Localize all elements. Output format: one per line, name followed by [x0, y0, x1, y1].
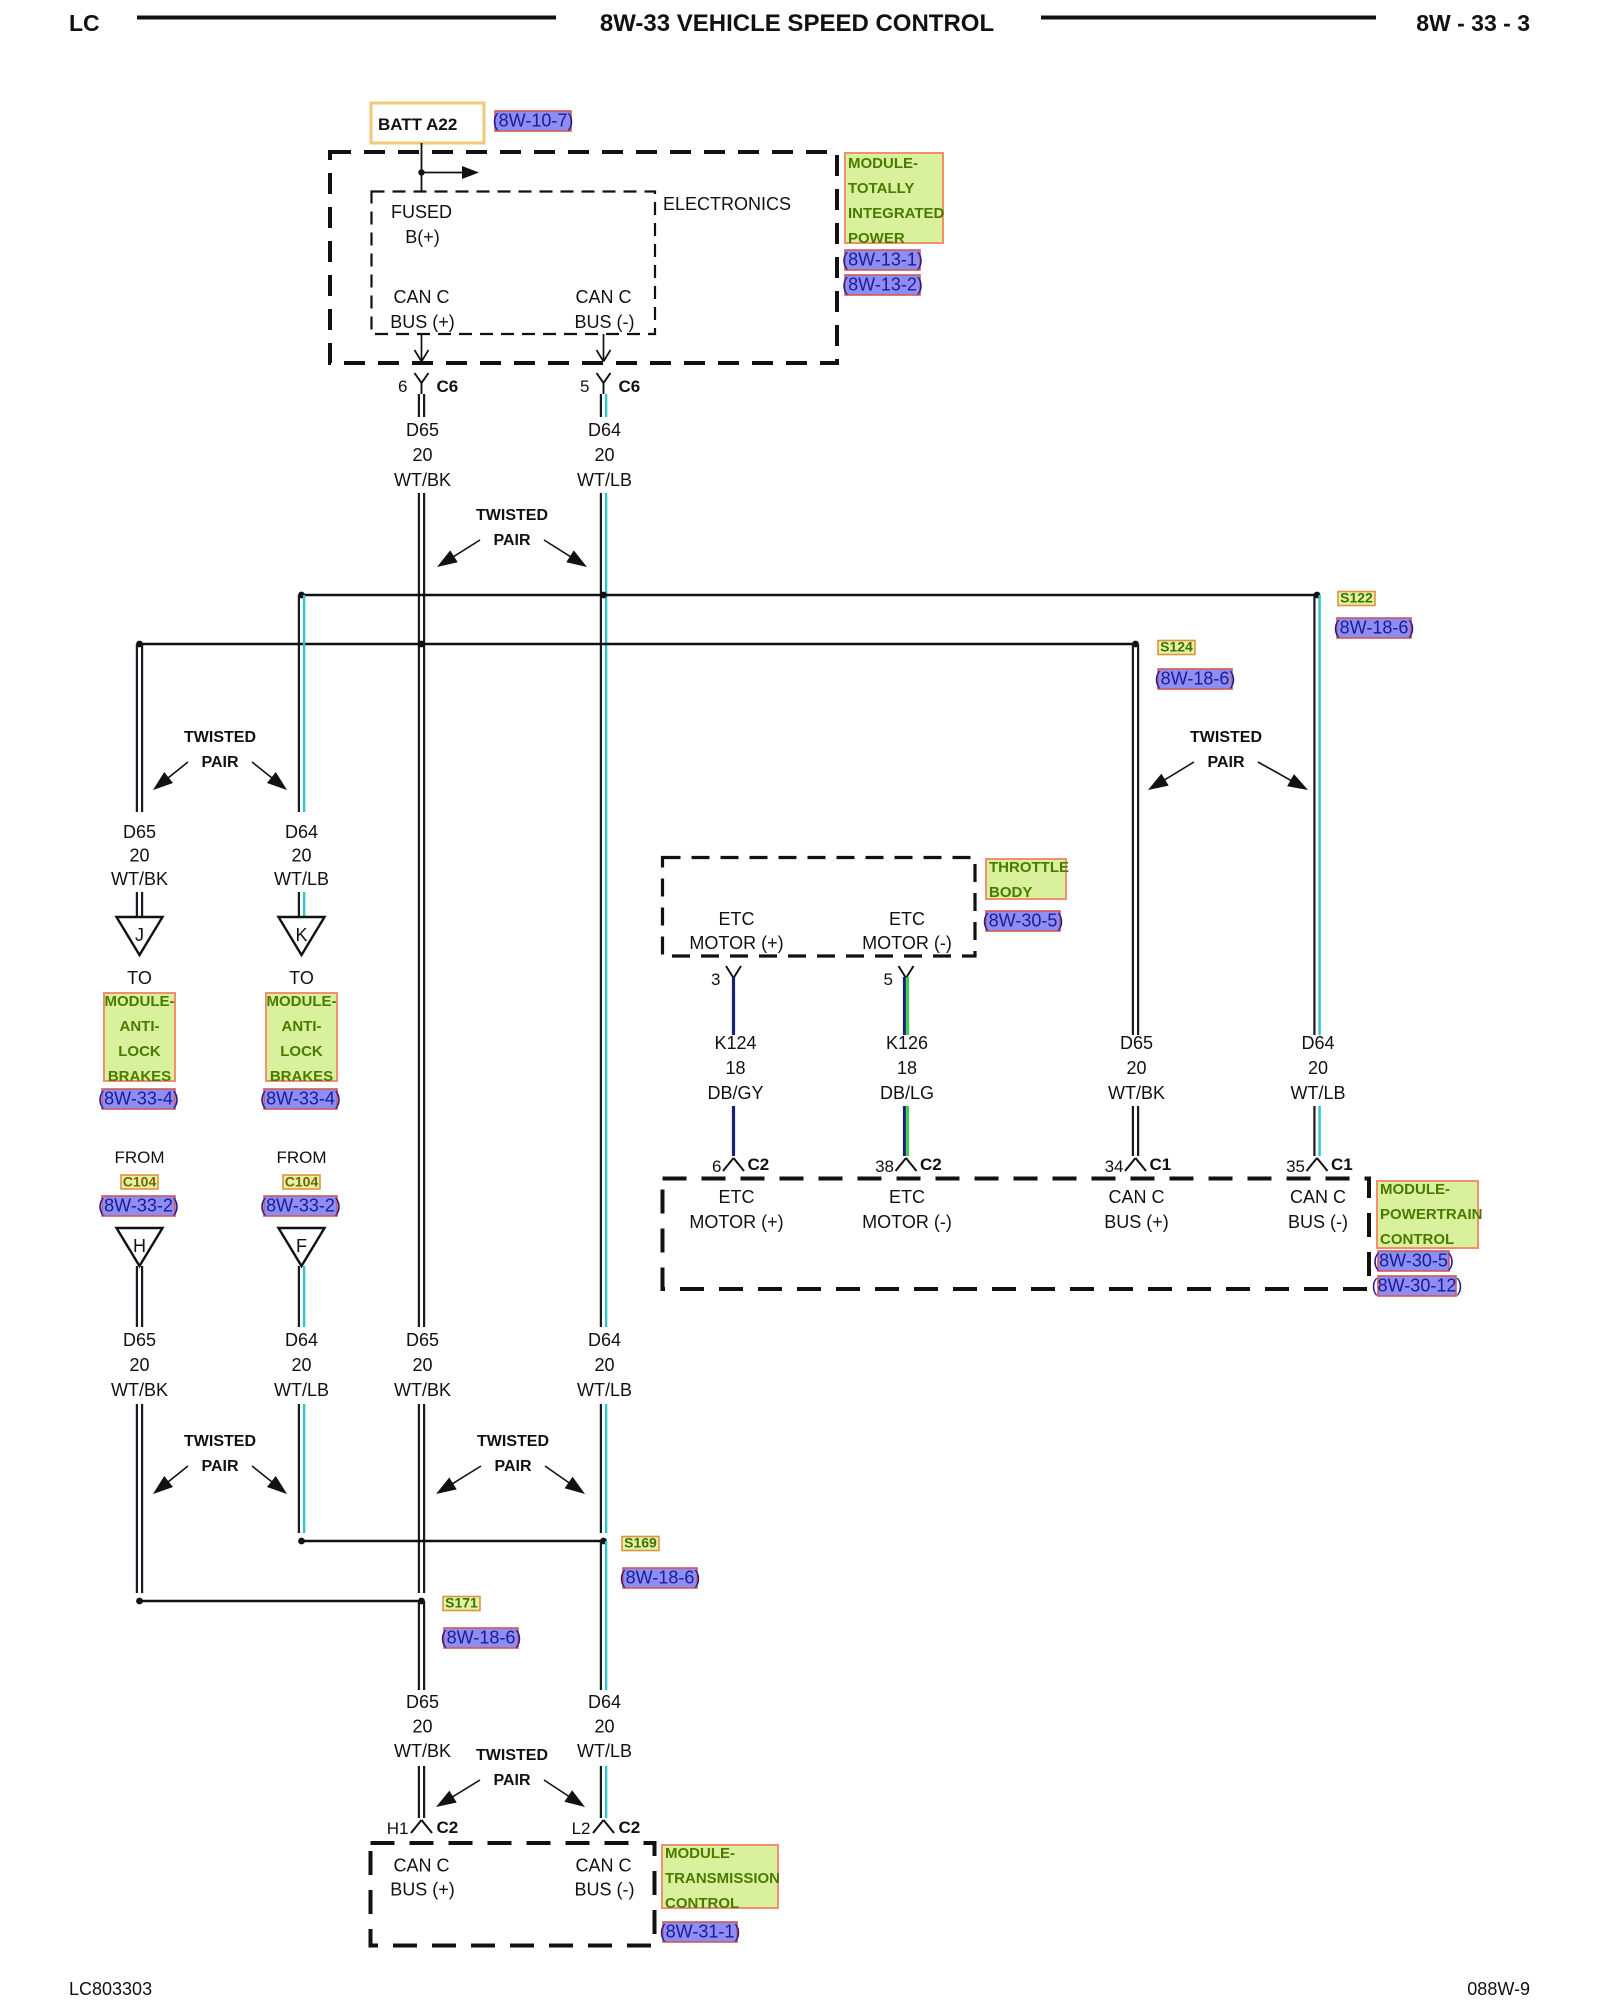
- wire D64 upper segment: [601, 394, 606, 417]
- label D64 20 WT/LB bottom: [577, 1692, 632, 1761]
- svg-text:TRANSMISSION: TRANSMISSION: [665, 1870, 780, 1887]
- connector C1 pin 34: [1105, 1155, 1172, 1176]
- reference (8W-13-2): [842, 275, 923, 296]
- svg-text:6: 6: [398, 377, 407, 396]
- svg-text:TOTALLY: TOTALLY: [848, 180, 914, 197]
- wire BATT A22 to TIPM fused B(+): [421, 143, 423, 191]
- pin label CAN C BUS (+) TIPM: [390, 287, 455, 332]
- connector C6 pin 6: [398, 373, 458, 396]
- connector C2 pin 6: [712, 1155, 769, 1176]
- connector C6 pin 5: [580, 373, 640, 396]
- svg-text:CAN C: CAN C: [1290, 1187, 1346, 1207]
- svg-text:(8W-33-2): (8W-33-2): [98, 1196, 179, 1216]
- svg-text:088W-9: 088W-9: [1467, 1979, 1530, 1999]
- svg-text:WT/LB: WT/LB: [577, 470, 632, 490]
- arrow fused B(+) feed other circuits: [422, 166, 480, 179]
- svg-text:20: 20: [594, 445, 614, 465]
- svg-text:TWISTED: TWISTED: [477, 1433, 549, 1450]
- annotation twisted pair mid: [436, 1433, 585, 1494]
- node S124 splice end: [1132, 641, 1139, 648]
- reference (8W-31-1) TCM: [660, 1922, 741, 1943]
- svg-text:WT/LB: WT/LB: [274, 1380, 329, 1400]
- label D65 20 WT/BK ABS: [111, 822, 168, 889]
- label FROM (H): [114, 1148, 164, 1167]
- reference (8W-33-4) J: [98, 1089, 179, 1110]
- svg-text:F: F: [296, 1236, 307, 1256]
- svg-text:TWISTED: TWISTED: [184, 1433, 256, 1450]
- module TIPM electronics inner box: [372, 192, 656, 335]
- node S171 left end: [136, 1598, 143, 1605]
- svg-text:ANTI-: ANTI-: [120, 1018, 160, 1035]
- svg-text:WT/BK: WT/BK: [1108, 1083, 1165, 1103]
- splice label S171: [443, 1595, 480, 1611]
- svg-text:DB/LG: DB/LG: [880, 1083, 934, 1103]
- wire D64 into K: [299, 892, 304, 916]
- svg-text:PAIR: PAIR: [493, 1772, 530, 1789]
- svg-text:BUS (-): BUS (-): [1288, 1212, 1348, 1232]
- label D64 20 WT/LB row4 col2: [274, 1330, 329, 1400]
- label D64 20 WT/LB ABS: [274, 822, 329, 889]
- wire D64 F to S169: [299, 1404, 304, 1533]
- label TO (J): [127, 968, 152, 988]
- wire D64 from F: [299, 1266, 304, 1327]
- svg-text:20: 20: [291, 1355, 311, 1375]
- wire bus S122 row: [302, 594, 1318, 597]
- svg-text:MODULE-: MODULE-: [267, 993, 337, 1010]
- pin label CAN C BUS (-) TIPM: [575, 287, 635, 332]
- svg-text:6: 6: [712, 1157, 721, 1176]
- svg-text:20: 20: [129, 1355, 149, 1375]
- svg-text:BUS (+): BUS (+): [390, 312, 455, 332]
- svg-text:D65: D65: [123, 822, 156, 842]
- svg-text:20: 20: [412, 445, 432, 465]
- label D64 20 WT/LB row4 main: [577, 1330, 632, 1400]
- svg-text:K: K: [295, 925, 307, 945]
- wire D65 into J: [137, 892, 142, 916]
- svg-text:CAN C: CAN C: [393, 1856, 449, 1876]
- svg-text:LOCK: LOCK: [280, 1043, 323, 1060]
- connector C2 pin H1: [387, 1818, 458, 1838]
- reference (8W-33-4) K: [260, 1089, 341, 1110]
- svg-text:D65: D65: [123, 1330, 156, 1350]
- label K124 18 DB/GY: [707, 1033, 763, 1103]
- svg-text:CAN C: CAN C: [1108, 1187, 1164, 1207]
- svg-text:18: 18: [897, 1058, 917, 1078]
- svg-text:8W-33 VEHICLE SPEED CONTROL: 8W-33 VEHICLE SPEED CONTROL: [600, 10, 994, 37]
- svg-text:20: 20: [594, 1355, 614, 1375]
- svg-text:C2: C2: [748, 1155, 770, 1174]
- svg-text:MOTOR (-): MOTOR (-): [862, 933, 952, 953]
- wire D65 from H: [137, 1266, 142, 1327]
- svg-text:WT/BK: WT/BK: [394, 1741, 451, 1761]
- reference (8W-18-6) S171: [441, 1628, 522, 1649]
- reference (8W-33-2) F: [260, 1196, 341, 1217]
- svg-text:C6: C6: [437, 377, 459, 396]
- svg-text:(8W-31-1): (8W-31-1): [660, 1922, 741, 1942]
- svg-text:CONTROL: CONTROL: [665, 1895, 739, 1912]
- svg-text:MODULE-: MODULE-: [105, 993, 175, 1010]
- svg-text:WT/LB: WT/LB: [577, 1741, 632, 1761]
- connector C1 pin 35: [1286, 1155, 1353, 1176]
- svg-text:D65: D65: [1120, 1033, 1153, 1053]
- svg-text:ETC: ETC: [889, 1187, 925, 1207]
- connector label C104 (F): [283, 1174, 320, 1190]
- pin label ETC MOTOR (-) PCM: [862, 1187, 952, 1232]
- wire D65 upper segment: [419, 394, 424, 417]
- svg-text:C6: C6: [619, 377, 641, 396]
- svg-text:C1: C1: [1150, 1155, 1172, 1174]
- svg-text:BUS (-): BUS (-): [575, 312, 635, 332]
- svg-text:TO: TO: [289, 968, 314, 988]
- svg-text:D65: D65: [406, 1692, 439, 1712]
- label FROM (F): [276, 1148, 326, 1167]
- svg-text:BUS (-): BUS (-): [575, 1880, 635, 1900]
- connector C2 pin L2: [572, 1818, 641, 1838]
- svg-text:C1: C1: [1331, 1155, 1353, 1174]
- footer sheet code: [69, 1979, 152, 1999]
- svg-text:FROM: FROM: [114, 1148, 164, 1167]
- svg-text:WT/BK: WT/BK: [394, 1380, 451, 1400]
- svg-text:MODULE-: MODULE-: [1380, 1181, 1450, 1198]
- svg-text:C104: C104: [123, 1174, 157, 1190]
- svg-text:TWISTED: TWISTED: [476, 1747, 548, 1764]
- svg-text:(8W-13-2): (8W-13-2): [842, 275, 923, 295]
- module TCM outline: [371, 1843, 655, 1946]
- svg-text:ETC: ETC: [889, 909, 925, 929]
- wire D64 ABS branch: [299, 595, 304, 812]
- svg-text:MOTOR (+): MOTOR (+): [689, 933, 783, 953]
- svg-text:DB/GY: DB/GY: [707, 1083, 763, 1103]
- node fused B(+) junction: [418, 169, 424, 175]
- svg-text:(8W-18-6): (8W-18-6): [441, 1628, 522, 1648]
- svg-text:20: 20: [291, 846, 311, 866]
- svg-text:D64: D64: [588, 420, 621, 440]
- svg-text:D65: D65: [406, 1330, 439, 1350]
- svg-text:TWISTED: TWISTED: [476, 507, 548, 524]
- svg-text:(8W-18-6): (8W-18-6): [620, 1568, 701, 1588]
- wire D64 main lower: [601, 1404, 606, 1533]
- wire D65 right branch: [1133, 644, 1138, 1035]
- wire D64 right branch: [1314, 595, 1319, 1035]
- svg-text:18: 18: [725, 1058, 745, 1078]
- svg-text:(8W-33-4): (8W-33-4): [98, 1089, 179, 1109]
- svg-text:MODULE-: MODULE-: [665, 1845, 735, 1862]
- svg-text:LC: LC: [69, 10, 100, 36]
- svg-text:5: 5: [580, 377, 589, 396]
- svg-text:LC803303: LC803303: [69, 1979, 152, 1999]
- pin label ETC MOTOR (+) PCM: [689, 1187, 783, 1232]
- label D65 20 WT/BK row4 col1: [111, 1330, 168, 1400]
- wire TIPM CAN C BUS (+) exit arrow: [415, 334, 429, 362]
- svg-text:ANTI-: ANTI-: [282, 1018, 322, 1035]
- label D64 20 WT/LB top: [577, 420, 632, 490]
- off-page connector K: [279, 917, 325, 955]
- label D65 20 WT/BK row4 main: [394, 1330, 451, 1400]
- svg-text:WT/LB: WT/LB: [274, 869, 329, 889]
- svg-text:D64: D64: [588, 1330, 621, 1350]
- svg-text:(8W-30-5): (8W-30-5): [983, 911, 1064, 931]
- reference (8W-10-7): [493, 111, 574, 132]
- svg-text:BUS (+): BUS (+): [1104, 1212, 1169, 1232]
- svg-text:H: H: [133, 1236, 146, 1256]
- splice label S122: [1338, 590, 1375, 606]
- wire K126 upper: [904, 977, 907, 1035]
- off-page connector J: [117, 917, 163, 955]
- splice label S169: [622, 1535, 659, 1551]
- wire bus S124 row: [140, 643, 1136, 646]
- wire K124 lower: [732, 1106, 735, 1156]
- svg-text:WT/BK: WT/BK: [111, 1380, 168, 1400]
- module ABS label (J): [104, 993, 175, 1085]
- svg-text:POWERTRAIN: POWERTRAIN: [1380, 1206, 1483, 1223]
- svg-text:20: 20: [412, 1355, 432, 1375]
- node S169 left end: [298, 1538, 305, 1545]
- svg-text:C2: C2: [619, 1818, 641, 1837]
- svg-text:C2: C2: [437, 1818, 459, 1837]
- module PCM outline: [663, 1179, 1370, 1290]
- wire splice S169 crossbar: [302, 1540, 604, 1543]
- svg-text:CONTROL: CONTROL: [1380, 1231, 1454, 1248]
- wire D65 main lower: [419, 1404, 424, 1593]
- svg-text:WT/LB: WT/LB: [577, 1380, 632, 1400]
- svg-text:S122: S122: [1340, 590, 1373, 606]
- svg-text:L2: L2: [572, 1819, 591, 1838]
- svg-text:20: 20: [1126, 1058, 1146, 1078]
- svg-text:D64: D64: [588, 1692, 621, 1712]
- reference (8W-30-12) PCM: [1372, 1276, 1463, 1297]
- svg-text:PAIR: PAIR: [493, 532, 530, 549]
- wire K124 upper: [732, 977, 735, 1035]
- wire TIPM CAN C BUS (-) exit arrow: [597, 334, 611, 362]
- header rule left: [137, 16, 556, 20]
- svg-text:ETC: ETC: [719, 909, 755, 929]
- label TO (K): [289, 968, 314, 988]
- wire D64 to TCM: [601, 1766, 606, 1818]
- svg-text:FROM: FROM: [276, 1148, 326, 1167]
- pin label FUSED B(+): [391, 202, 452, 247]
- wire D65 main upper: [419, 493, 424, 1327]
- svg-text:20: 20: [594, 1717, 614, 1737]
- svg-text:D64: D64: [1301, 1033, 1334, 1053]
- svg-text:WT/BK: WT/BK: [111, 869, 168, 889]
- svg-text:BODY: BODY: [989, 884, 1032, 901]
- fuse source BATT A22: [371, 103, 484, 143]
- svg-text:MOTOR (-): MOTOR (-): [862, 1212, 952, 1232]
- off-page connector H: [117, 1228, 163, 1266]
- wire D65 right lower: [1133, 1106, 1138, 1156]
- reference (8W-30-5) PCM: [1373, 1251, 1454, 1272]
- svg-text:20: 20: [1308, 1058, 1328, 1078]
- svg-text:PAIR: PAIR: [201, 754, 238, 771]
- wire splice S171 crossbar: [140, 1600, 422, 1603]
- reference (8W-18-6) S169: [620, 1568, 701, 1589]
- label D65 20 WT/BK bottom: [394, 1692, 451, 1761]
- svg-text:S171: S171: [445, 1595, 478, 1611]
- svg-text:34: 34: [1105, 1157, 1124, 1176]
- annotation twisted pair left upper: [153, 729, 287, 790]
- wire D64 below S169: [601, 1541, 606, 1690]
- svg-text:WT/LB: WT/LB: [1290, 1083, 1345, 1103]
- connector TB pin 3: [711, 966, 741, 989]
- svg-text:BRAKES: BRAKES: [108, 1068, 171, 1085]
- connector C2 pin 38: [875, 1155, 942, 1176]
- node S171 right end: [418, 1598, 425, 1605]
- annotation twisted pair left lower: [153, 1433, 287, 1494]
- pin label CAN C BUS (+) TCM: [390, 1856, 455, 1900]
- svg-text:20: 20: [412, 1717, 432, 1737]
- svg-text:TWISTED: TWISTED: [184, 729, 256, 746]
- splice label S124: [1158, 639, 1195, 655]
- reference (8W-18-6) S124: [1155, 669, 1236, 690]
- svg-text:CAN C: CAN C: [575, 1856, 631, 1876]
- label D65 20 WT/BK right: [1108, 1033, 1165, 1103]
- node S169 right end: [600, 1538, 607, 1545]
- svg-text:BRAKES: BRAKES: [270, 1068, 333, 1085]
- svg-text:(8W-10-7): (8W-10-7): [493, 111, 574, 131]
- svg-text:D64: D64: [285, 1330, 318, 1350]
- module ABS label (K): [266, 993, 337, 1085]
- wire D65 H to S171: [137, 1404, 142, 1593]
- svg-text:5: 5: [884, 970, 893, 989]
- node S124 row left end: [136, 641, 143, 648]
- wire D65 below S171: [419, 1601, 424, 1690]
- wire D64 main upper: [601, 493, 606, 1327]
- svg-text:POWER: POWER: [848, 230, 905, 247]
- svg-text:MOTOR (+): MOTOR (+): [689, 1212, 783, 1232]
- svg-text:LOCK: LOCK: [118, 1043, 161, 1060]
- svg-text:TWISTED: TWISTED: [1190, 729, 1262, 746]
- label D64 20 WT/LB right: [1290, 1033, 1345, 1103]
- svg-text:(8W-13-1): (8W-13-1): [842, 250, 923, 270]
- svg-text:8W - 33 - 3: 8W - 33 - 3: [1416, 10, 1530, 36]
- annotation twisted pair bottom: [436, 1747, 585, 1807]
- svg-text:BUS (+): BUS (+): [390, 1880, 455, 1900]
- header title: [600, 10, 994, 37]
- node S122 row left end: [298, 592, 305, 599]
- svg-text:38: 38: [875, 1157, 894, 1176]
- label ELECTRONICS: [663, 194, 791, 214]
- node S122 row mid junction: [600, 592, 607, 599]
- svg-text:PAIR: PAIR: [201, 1458, 238, 1475]
- svg-text:35: 35: [1286, 1157, 1305, 1176]
- reference (8W-33-2) H: [98, 1196, 179, 1217]
- component throttle body outline: [663, 858, 976, 957]
- wire K126 lower: [904, 1106, 907, 1156]
- pin label CAN C BUS (+) PCM: [1104, 1187, 1169, 1232]
- svg-text:K126: K126: [886, 1033, 928, 1053]
- module TIPM outline: [330, 152, 837, 363]
- svg-text:B(+): B(+): [405, 227, 440, 247]
- annotation twisted pair right: [1148, 729, 1308, 790]
- svg-text:(8W-33-4): (8W-33-4): [260, 1089, 341, 1109]
- component throttle body label: [986, 859, 1069, 901]
- svg-text:C104: C104: [285, 1174, 319, 1190]
- wire D65 to TCM: [419, 1766, 424, 1818]
- wire D64 right lower: [1314, 1106, 1319, 1156]
- svg-text:THROTTLE: THROTTLE: [989, 859, 1069, 876]
- svg-text:ETC: ETC: [719, 1187, 755, 1207]
- pin label ETC MOTOR (-) TB: [862, 909, 952, 953]
- node S122 splice end: [1314, 592, 1321, 599]
- off-page connector F: [279, 1228, 325, 1266]
- header LC page code: [69, 10, 100, 36]
- svg-text:3: 3: [711, 970, 720, 989]
- svg-text:PAIR: PAIR: [1207, 754, 1244, 771]
- pin label CAN C BUS (-) TCM: [575, 1856, 635, 1900]
- svg-text:S124: S124: [1160, 639, 1193, 655]
- svg-text:BATT A22: BATT A22: [378, 115, 457, 134]
- svg-text:K124: K124: [714, 1033, 756, 1053]
- svg-text:(8W-18-6): (8W-18-6): [1155, 669, 1236, 689]
- svg-text:CAN C: CAN C: [393, 287, 449, 307]
- annotation twisted pair top: [437, 507, 587, 567]
- svg-text:CAN C: CAN C: [575, 287, 631, 307]
- connector label C104 (H): [121, 1174, 158, 1190]
- module TCM label: [662, 1845, 780, 1912]
- footer drawing number: [1467, 1979, 1530, 1999]
- svg-text:FUSED: FUSED: [391, 202, 452, 222]
- svg-text:D64: D64: [285, 822, 318, 842]
- svg-text:MODULE-: MODULE-: [848, 155, 918, 172]
- header page number: [1416, 10, 1530, 36]
- wire D65 ABS branch: [137, 644, 142, 812]
- header rule right: [1041, 16, 1376, 20]
- svg-text:(8W-30-12): (8W-30-12): [1372, 1276, 1463, 1296]
- label K126 18 DB/LG: [880, 1033, 934, 1103]
- label D65 20 WT/BK top: [394, 420, 451, 490]
- reference (8W-18-6) S122: [1334, 618, 1415, 639]
- svg-text:J: J: [135, 925, 144, 945]
- svg-text:PAIR: PAIR: [494, 1458, 531, 1475]
- svg-text:20: 20: [129, 846, 149, 866]
- connector TB pin 5: [884, 966, 914, 989]
- svg-text:ELECTRONICS: ELECTRONICS: [663, 194, 791, 214]
- pin label CAN C BUS (-) PCM: [1288, 1187, 1348, 1232]
- svg-text:(8W-33-2): (8W-33-2): [260, 1196, 341, 1216]
- svg-text:D65: D65: [406, 420, 439, 440]
- reference (8W-13-1): [842, 250, 923, 271]
- svg-text:WT/BK: WT/BK: [394, 470, 451, 490]
- reference (8W-30-5) TB: [983, 911, 1064, 932]
- svg-text:S169: S169: [624, 1535, 657, 1551]
- svg-text:(8W-30-5): (8W-30-5): [1373, 1251, 1454, 1271]
- svg-text:(8W-18-6): (8W-18-6): [1334, 618, 1415, 638]
- pin label ETC MOTOR (+) TB: [689, 909, 783, 953]
- module TIPM label: [845, 153, 945, 247]
- svg-text:INTEGRATED: INTEGRATED: [848, 205, 945, 222]
- svg-text:C2: C2: [920, 1155, 942, 1174]
- svg-text:TO: TO: [127, 968, 152, 988]
- svg-text:H1: H1: [387, 1819, 409, 1838]
- node S124 row mid junction: [418, 641, 425, 648]
- module PCM label: [1377, 1181, 1483, 1248]
